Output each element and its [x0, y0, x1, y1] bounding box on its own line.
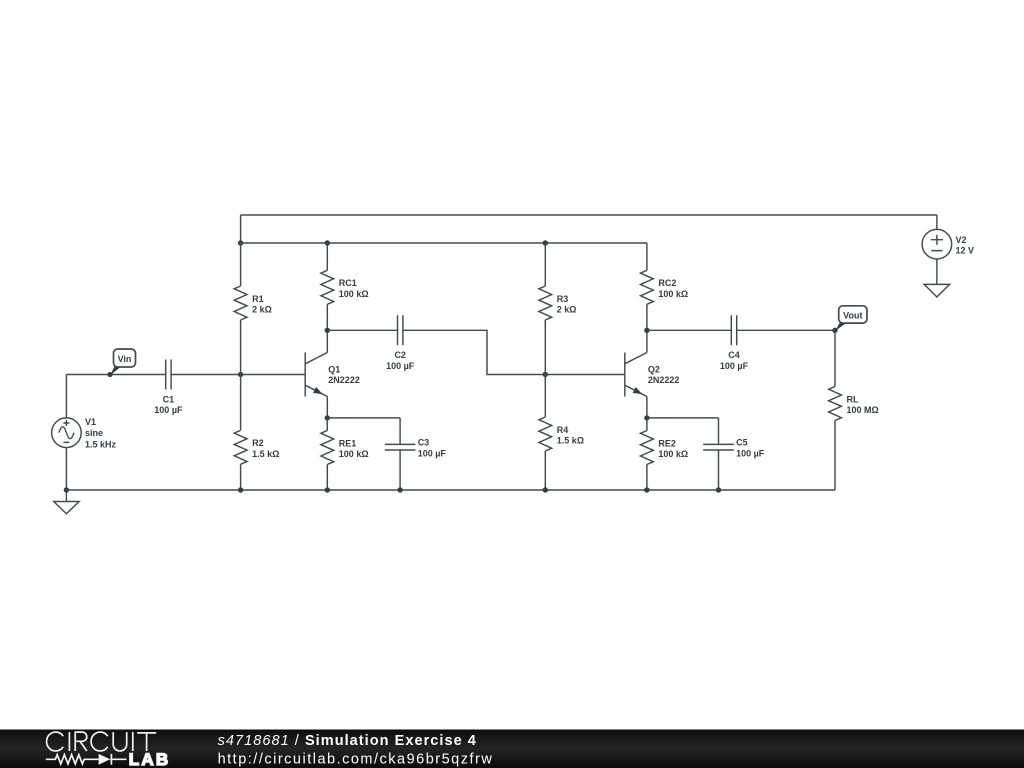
resistor R1 2 kOhm: [234, 243, 272, 375]
voltage source V2 12 V: [922, 215, 974, 284]
svg-text:R3: R3: [557, 294, 569, 304]
capacitor C1 100 uF: [154, 360, 183, 416]
resistor RE1 100 kOhm: [321, 418, 369, 490]
net flag Vin: [110, 349, 135, 375]
transistor Q2 2N2222: [625, 330, 680, 418]
svg-text:RC1: RC1: [339, 278, 357, 288]
svg-text:2 kΩ: 2 kΩ: [557, 305, 577, 315]
svg-text:R2: R2: [252, 438, 264, 448]
node junction base divider Q1: [238, 372, 243, 377]
svg-text:100 µF: 100 µF: [154, 405, 183, 415]
wire VCC left drop: [240, 215, 242, 243]
svg-text:100 kΩ: 100 kΩ: [658, 449, 688, 459]
logo LAB wordmark: [129, 750, 171, 768]
svg-text:12 V: 12 V: [956, 246, 975, 256]
logo CIRCUIT wordmark: [47, 732, 157, 751]
wire ground rail: [66, 489, 835, 491]
svg-text:s4718681 / Simulation Exercise: s4718681 / Simulation Exercise 4: [218, 733, 477, 749]
wire C1 to Q1 base: [171, 374, 305, 376]
svg-text:V1: V1: [85, 417, 96, 427]
svg-text:RC2: RC2: [658, 278, 676, 288]
svg-text:R1: R1: [252, 294, 264, 304]
svg-text:C5: C5: [736, 437, 748, 447]
footer caption title: [218, 733, 477, 749]
svg-text:LAB: LAB: [129, 750, 171, 768]
svg-text:1.5 kΩ: 1.5 kΩ: [557, 436, 584, 446]
capacitor C4 100 uF: [647, 315, 835, 371]
svg-text:RL: RL: [847, 394, 859, 404]
resistor RL 100 MOhm: [829, 330, 879, 490]
node junction R2 bottom: [238, 487, 243, 492]
footer bar: [0, 730, 1024, 768]
svg-text:2 kΩ: 2 kΩ: [252, 305, 272, 315]
footer url: [218, 752, 494, 768]
node junction V1 ground rail: [64, 487, 69, 492]
svg-text:Vin: Vin: [118, 354, 132, 364]
node junction RC1 top: [325, 240, 330, 245]
svg-text:http://circuitlab.com/cka96br5: http://circuitlab.com/cka96br5qzfrw: [218, 752, 494, 768]
node Vin junction: [107, 372, 112, 377]
svg-text:2N2222: 2N2222: [648, 375, 680, 385]
node junction R3 top: [543, 240, 548, 245]
svg-text:100 µF: 100 µF: [418, 448, 447, 458]
capacitor C2 100 uF: [327, 315, 415, 371]
node junction Q2 emitter: [644, 415, 649, 420]
node junction Q1 collector: [325, 328, 330, 333]
node junction R1 top: [238, 240, 243, 245]
ground below V1: [54, 490, 79, 514]
wire C2 to Q2 base jog: [403, 330, 624, 374]
resistor RC2 100 kOhm: [641, 243, 689, 330]
logo resistor-diode glyph: [46, 754, 127, 765]
wire VCC distribution rail: [241, 242, 647, 244]
node junction C5 bottom: [716, 487, 721, 492]
svg-text:100 kΩ: 100 kΩ: [339, 289, 369, 299]
capacitor C3 100 uF: [385, 418, 447, 490]
wire V1 to C1: [66, 374, 165, 376]
svg-text:1.5 kΩ: 1.5 kΩ: [252, 449, 279, 459]
node Vout junction: [832, 328, 837, 333]
svg-text:C1: C1: [163, 394, 175, 404]
svg-text:Vout: Vout: [843, 310, 862, 320]
svg-text:sine: sine: [85, 428, 103, 438]
svg-text:100 µF: 100 µF: [736, 448, 765, 458]
node junction C3 bottom: [397, 487, 402, 492]
svg-text:2N2222: 2N2222: [328, 375, 360, 385]
node junction Q1 emitter: [325, 415, 330, 420]
svg-text:100 MΩ: 100 MΩ: [847, 405, 879, 415]
svg-text:RE1: RE1: [339, 438, 357, 448]
svg-text:100 µF: 100 µF: [386, 361, 415, 371]
capacitor C5 100 uF: [703, 418, 765, 490]
resistor RE2 100 kOhm: [641, 418, 689, 490]
svg-text:C2: C2: [394, 350, 406, 360]
svg-text:RE2: RE2: [658, 438, 676, 448]
svg-text:R4: R4: [557, 425, 569, 435]
resistor R4 1.5 kOhm: [539, 375, 584, 491]
svg-text:100 kΩ: 100 kΩ: [339, 449, 369, 459]
resistor RC1 100 kOhm: [321, 243, 369, 330]
node junction RE2 bottom: [644, 487, 649, 492]
svg-text:100 µF: 100 µF: [720, 361, 749, 371]
resistor R3 2 kOhm: [539, 243, 577, 375]
svg-text:C3: C3: [418, 437, 430, 447]
ground below V2: [924, 284, 949, 297]
net flag Vout: [835, 306, 867, 331]
svg-text:100 kΩ: 100 kΩ: [658, 289, 688, 299]
svg-text:Q2: Q2: [648, 364, 660, 374]
node junction Q2 collector: [644, 328, 649, 333]
transistor Q1 2N2222: [305, 330, 360, 418]
voltage source V1 sine 1.5 kHz: [52, 375, 117, 491]
wire VCC top rail: [241, 214, 937, 216]
wire Q1 emitter to C3: [327, 417, 400, 419]
svg-text:C4: C4: [728, 350, 740, 360]
node junction RE1 bottom: [325, 487, 330, 492]
svg-text:1.5 kHz: 1.5 kHz: [85, 439, 117, 449]
wire Q2 emitter to C5: [647, 417, 719, 419]
svg-text:Q1: Q1: [328, 364, 340, 374]
svg-text:V2: V2: [956, 235, 967, 245]
resistor R2 1.5 kOhm: [234, 375, 279, 491]
node junction base divider Q2: [543, 372, 548, 377]
node junction R4 bottom: [543, 487, 548, 492]
